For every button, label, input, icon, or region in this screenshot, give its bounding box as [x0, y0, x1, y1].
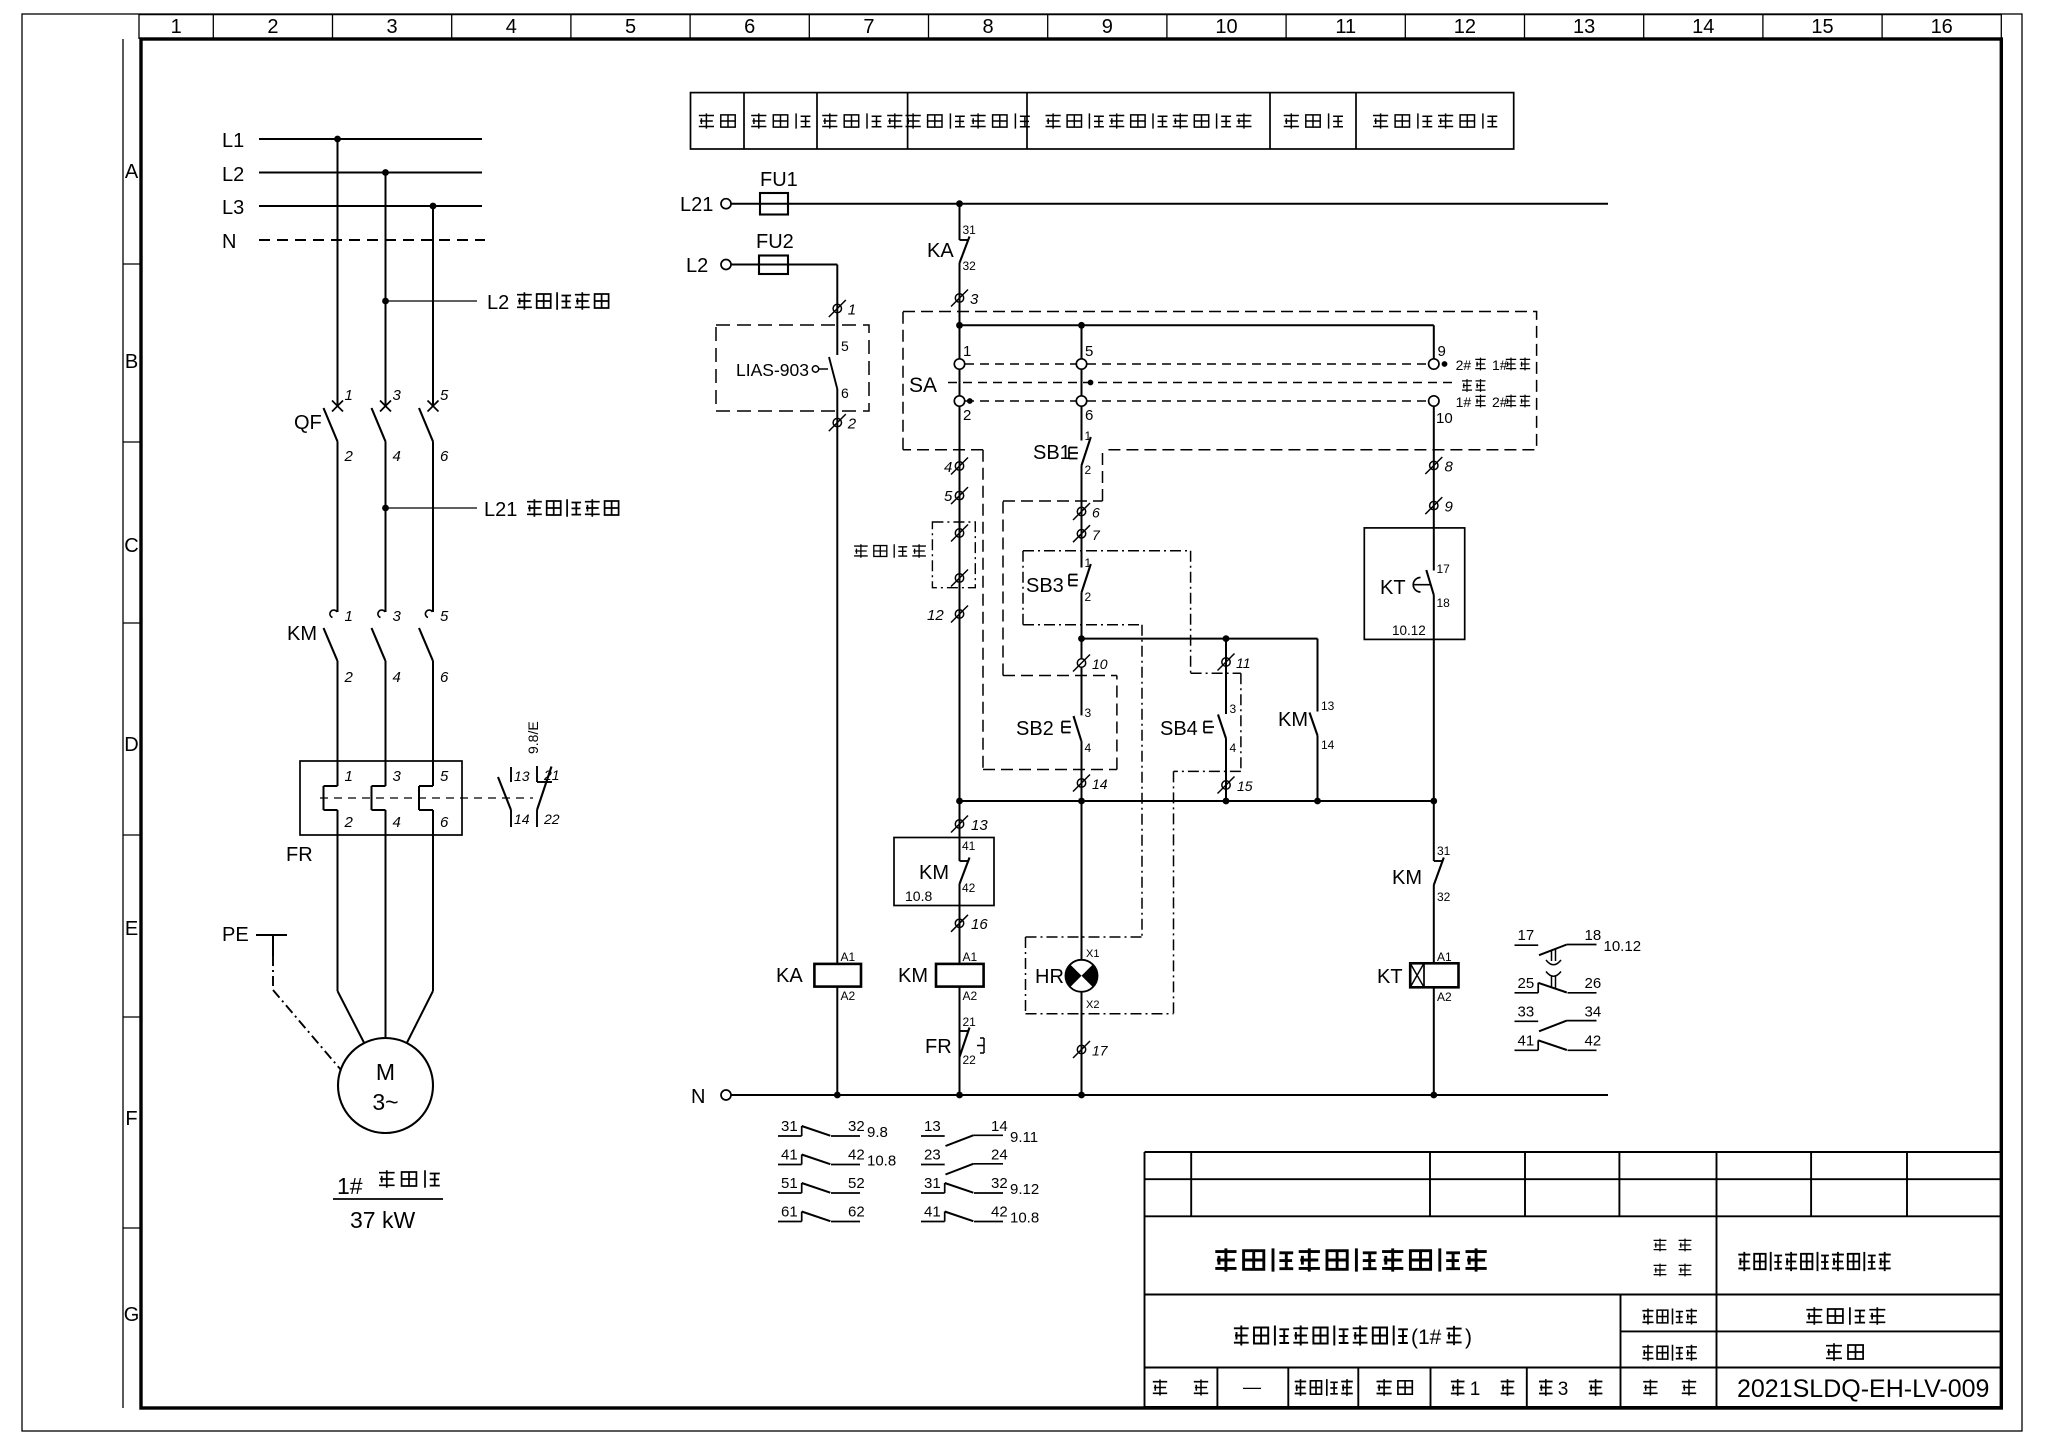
svg-text:12: 12 — [927, 607, 944, 624]
svg-text:51: 51 — [781, 1175, 798, 1192]
svg-text:32: 32 — [1437, 890, 1451, 904]
svg-text:KA: KA — [927, 240, 954, 262]
svg-text:9: 9 — [1445, 499, 1454, 516]
svg-text:10.8: 10.8 — [1010, 1210, 1039, 1227]
svg-text:1: 1 — [963, 343, 971, 360]
svg-text:1#: 1# — [1492, 357, 1508, 373]
svg-text:33: 33 — [1518, 1003, 1535, 1020]
svg-text:41: 41 — [924, 1204, 941, 1221]
svg-text:KT: KT — [1380, 577, 1406, 599]
svg-text:2: 2 — [344, 669, 354, 686]
svg-text:10: 10 — [1215, 16, 1237, 38]
svg-text:42: 42 — [848, 1147, 865, 1164]
svg-text:QF: QF — [294, 412, 322, 434]
svg-text:3: 3 — [1230, 702, 1237, 716]
svg-text:22: 22 — [963, 1053, 977, 1067]
svg-text:1: 1 — [345, 768, 353, 785]
svg-text:A2: A2 — [841, 989, 856, 1003]
svg-text:1#: 1# — [1456, 394, 1472, 410]
svg-text:A2: A2 — [963, 989, 978, 1003]
svg-text:B: B — [125, 351, 138, 373]
svg-text:15: 15 — [1811, 16, 1833, 38]
svg-text:SB3: SB3 — [1026, 575, 1064, 597]
svg-text:5: 5 — [1085, 343, 1093, 360]
svg-text:31: 31 — [781, 1118, 798, 1135]
svg-text:2021SLDQ-EH-LV-009: 2021SLDQ-EH-LV-009 — [1737, 1375, 1989, 1403]
svg-text:E: E — [125, 918, 138, 940]
svg-text:10: 10 — [1436, 410, 1453, 427]
svg-text:61: 61 — [781, 1204, 798, 1221]
svg-text:X2: X2 — [1086, 999, 1099, 1011]
svg-text:37 kW: 37 kW — [350, 1207, 415, 1233]
svg-text:13: 13 — [971, 817, 988, 834]
svg-text:KM: KM — [287, 623, 317, 645]
svg-text:G: G — [124, 1304, 140, 1326]
svg-text:18: 18 — [1585, 927, 1602, 944]
svg-text:4: 4 — [393, 669, 401, 686]
svg-text:13: 13 — [924, 1118, 941, 1135]
svg-text:14: 14 — [1692, 16, 1714, 38]
svg-text:4: 4 — [393, 814, 401, 831]
svg-text:14: 14 — [1321, 738, 1335, 752]
svg-text:42: 42 — [962, 881, 976, 895]
svg-text:41: 41 — [962, 839, 976, 853]
svg-text:L2: L2 — [487, 292, 509, 314]
svg-text:32: 32 — [991, 1175, 1008, 1192]
svg-text:D: D — [124, 734, 138, 756]
svg-text:A1: A1 — [841, 950, 856, 964]
svg-text:52: 52 — [848, 1175, 865, 1192]
svg-text:KT: KT — [1377, 966, 1403, 988]
svg-text:13: 13 — [1573, 16, 1595, 38]
svg-text:KM: KM — [898, 965, 928, 987]
svg-text:KM: KM — [1278, 709, 1308, 731]
svg-text:SA: SA — [909, 374, 937, 397]
svg-text:32: 32 — [848, 1118, 865, 1135]
svg-text:N: N — [691, 1086, 705, 1108]
svg-text:L2: L2 — [686, 255, 708, 277]
svg-text:3: 3 — [970, 291, 979, 308]
svg-text:4: 4 — [1230, 741, 1237, 755]
svg-text:A1: A1 — [1437, 950, 1452, 964]
svg-text:11: 11 — [1236, 655, 1251, 671]
svg-text:1#: 1# — [337, 1173, 363, 1199]
svg-text:HR: HR — [1035, 966, 1064, 988]
svg-text:7: 7 — [1092, 527, 1101, 543]
svg-text:FU2: FU2 — [756, 231, 794, 253]
svg-text:): ) — [1465, 1326, 1472, 1349]
svg-text:L2: L2 — [222, 164, 244, 186]
svg-text:5: 5 — [440, 387, 449, 404]
svg-text:—: — — [1243, 1377, 1261, 1397]
svg-text:22: 22 — [543, 811, 560, 827]
svg-text:23: 23 — [924, 1147, 941, 1164]
svg-text:2#: 2# — [1492, 394, 1508, 410]
svg-text:13: 13 — [1321, 699, 1335, 713]
svg-text:2: 2 — [1085, 590, 1092, 604]
svg-text:3~: 3~ — [372, 1089, 398, 1115]
svg-text:LIAS-903: LIAS-903 — [736, 360, 809, 380]
svg-text:6: 6 — [440, 669, 449, 686]
svg-text:11: 11 — [1335, 16, 1356, 38]
svg-text:13: 13 — [514, 768, 530, 784]
svg-text:6: 6 — [744, 16, 755, 38]
svg-text:14: 14 — [514, 811, 530, 827]
svg-text:7: 7 — [863, 16, 874, 38]
svg-text:8: 8 — [1445, 459, 1454, 476]
svg-text:31: 31 — [1437, 844, 1451, 858]
svg-text:2#: 2# — [1456, 357, 1472, 373]
svg-text:10: 10 — [1092, 656, 1108, 672]
svg-text:KM: KM — [1392, 867, 1422, 889]
svg-text:2: 2 — [344, 448, 354, 465]
svg-text:42: 42 — [1585, 1032, 1602, 1049]
svg-text:2: 2 — [847, 416, 857, 433]
svg-text:31: 31 — [924, 1175, 941, 1192]
svg-text:9.8: 9.8 — [867, 1124, 888, 1141]
svg-text:PE: PE — [222, 924, 249, 946]
svg-text:8: 8 — [983, 16, 994, 38]
svg-text:17: 17 — [1518, 927, 1535, 944]
svg-text:9.11: 9.11 — [1010, 1129, 1038, 1146]
svg-text:21: 21 — [963, 1015, 977, 1029]
svg-text:17: 17 — [1437, 562, 1451, 576]
svg-text:A2: A2 — [1437, 990, 1452, 1004]
svg-text:M: M — [376, 1059, 395, 1085]
svg-text:41: 41 — [781, 1147, 798, 1164]
svg-text:A1: A1 — [963, 950, 978, 964]
svg-text:9.8/E: 9.8/E — [525, 721, 541, 754]
svg-text:14: 14 — [991, 1118, 1008, 1135]
svg-text:10.8: 10.8 — [867, 1153, 896, 1170]
svg-text:F: F — [125, 1108, 137, 1130]
svg-text:3: 3 — [1558, 1379, 1569, 1400]
svg-text:1: 1 — [345, 608, 353, 625]
svg-text:3: 3 — [393, 608, 402, 625]
svg-text:L3: L3 — [222, 197, 244, 219]
svg-text:1: 1 — [1470, 1379, 1481, 1400]
svg-text:C: C — [124, 535, 138, 557]
svg-text:15: 15 — [1237, 778, 1253, 794]
svg-text:14: 14 — [1092, 776, 1108, 792]
svg-text:1: 1 — [345, 387, 353, 404]
svg-text:5: 5 — [944, 488, 953, 505]
svg-text:31: 31 — [963, 223, 977, 237]
svg-text:3: 3 — [1085, 706, 1092, 720]
svg-text:25: 25 — [1518, 975, 1535, 992]
svg-text:KM: KM — [919, 862, 949, 884]
svg-text:4: 4 — [393, 448, 401, 465]
svg-text:41: 41 — [1518, 1032, 1535, 1049]
svg-text:5: 5 — [440, 768, 449, 785]
svg-text:10.12: 10.12 — [1392, 623, 1426, 638]
svg-text:2: 2 — [1085, 463, 1092, 477]
svg-text:1: 1 — [848, 302, 856, 319]
svg-text:5: 5 — [440, 608, 449, 625]
svg-text:SB2: SB2 — [1016, 718, 1054, 740]
svg-text:6: 6 — [841, 385, 849, 401]
svg-text:5: 5 — [625, 16, 636, 38]
svg-text:16: 16 — [971, 916, 988, 933]
svg-text:42: 42 — [991, 1204, 1008, 1221]
svg-text:9.12: 9.12 — [1010, 1181, 1039, 1198]
svg-text:26: 26 — [1585, 975, 1602, 992]
svg-text:L21: L21 — [484, 499, 517, 521]
svg-text:9: 9 — [1438, 343, 1446, 360]
svg-text:N: N — [222, 231, 236, 253]
svg-text:24: 24 — [991, 1147, 1008, 1164]
svg-text:(1#: (1# — [1411, 1326, 1442, 1349]
svg-text:SB4: SB4 — [1160, 718, 1198, 740]
svg-text:4: 4 — [944, 459, 952, 476]
svg-text:17: 17 — [1092, 1043, 1109, 1059]
svg-text:3: 3 — [387, 16, 398, 38]
svg-text:KA: KA — [776, 965, 803, 987]
svg-text:X1: X1 — [1086, 948, 1099, 960]
svg-text:12: 12 — [1454, 16, 1476, 38]
svg-text:2: 2 — [344, 814, 354, 831]
svg-text:L1: L1 — [222, 130, 244, 152]
svg-text:6: 6 — [1085, 407, 1093, 424]
svg-text:16: 16 — [1931, 16, 1953, 38]
svg-text:18: 18 — [1437, 596, 1451, 610]
svg-text:32: 32 — [963, 259, 977, 273]
svg-text:2: 2 — [267, 16, 278, 38]
svg-text:34: 34 — [1585, 1003, 1602, 1020]
svg-text:5: 5 — [841, 338, 849, 354]
svg-text:6: 6 — [440, 814, 449, 831]
svg-text:FU1: FU1 — [760, 169, 798, 191]
svg-text:4: 4 — [1085, 741, 1092, 755]
svg-text:21: 21 — [543, 767, 560, 783]
svg-text:6: 6 — [1092, 505, 1100, 521]
svg-text:4: 4 — [506, 16, 517, 38]
svg-text:6: 6 — [440, 448, 449, 465]
svg-text:A: A — [125, 161, 139, 183]
svg-text:2: 2 — [963, 407, 971, 424]
svg-text:SB1: SB1 — [1033, 442, 1071, 464]
svg-text:3: 3 — [393, 768, 402, 785]
svg-text:FR: FR — [286, 844, 313, 866]
svg-text:10.8: 10.8 — [905, 888, 932, 904]
svg-text:1: 1 — [171, 16, 182, 38]
svg-text:9: 9 — [1102, 16, 1113, 38]
svg-text:FR: FR — [925, 1036, 952, 1058]
svg-text:L21: L21 — [680, 194, 713, 216]
svg-text:3: 3 — [393, 387, 402, 404]
svg-text:10.12: 10.12 — [1604, 938, 1642, 955]
svg-text:62: 62 — [848, 1204, 865, 1221]
